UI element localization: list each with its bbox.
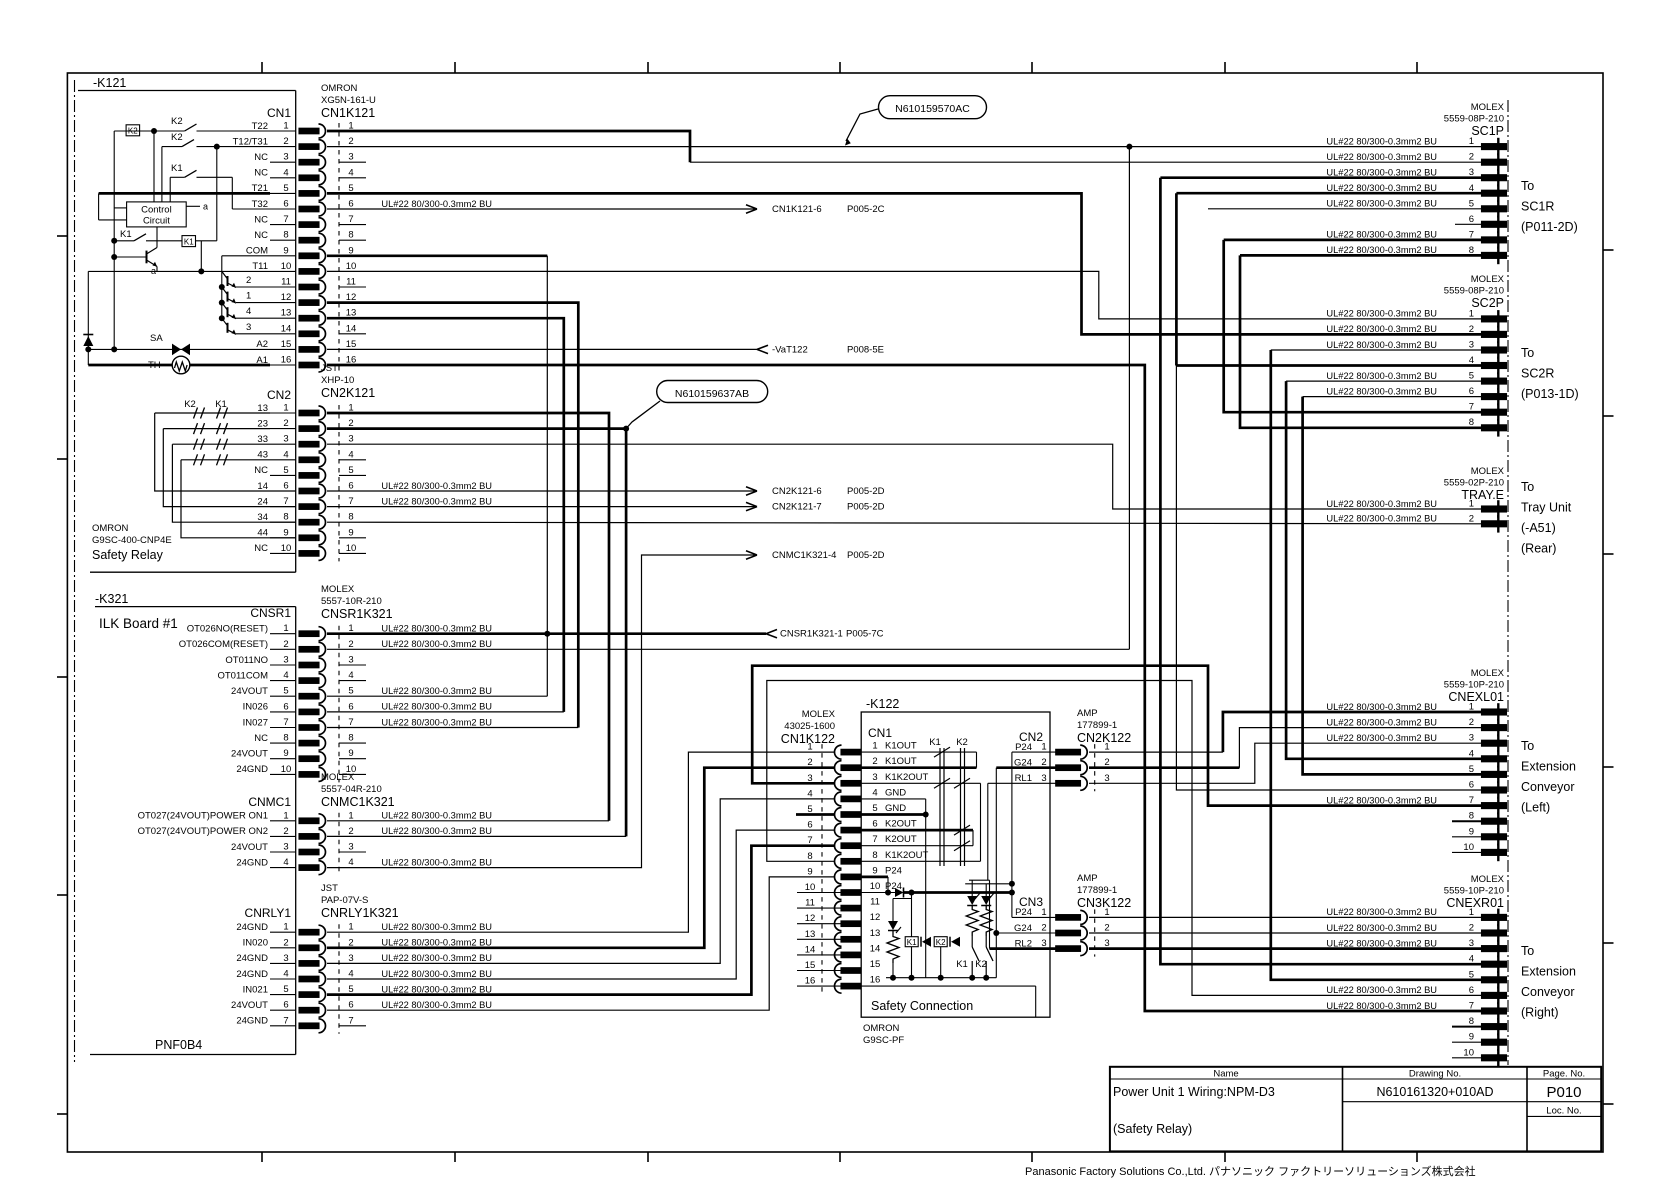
svg-text:9: 9 <box>1469 826 1474 837</box>
svg-text:2: 2 <box>283 639 288 650</box>
CN1K122 pin 10 contact <box>841 890 861 896</box>
svg-text:UL#22 80/300-0.3mm2 BU: UL#22 80/300-0.3mm2 BU <box>1326 183 1437 193</box>
svg-text:MOLEX: MOLEX <box>802 709 836 720</box>
svg-text:UL#22 80/300-0.3mm2 BU: UL#22 80/300-0.3mm2 BU <box>1326 733 1437 743</box>
relay contact bar row 3 <box>194 439 198 450</box>
CN1K121 pin 4 stub <box>270 177 296 179</box>
CNEXR01 pin 8 stub <box>1452 1026 1482 1028</box>
CNEXL01 pin 10 stub <box>1452 851 1482 853</box>
wire CN1K121-15 A2 from -VaT122 <box>327 348 757 350</box>
svg-text:7: 7 <box>283 1015 288 1026</box>
resistor R1 (K122) <box>966 906 978 937</box>
svg-text:K1: K1 <box>907 938 917 947</box>
node GND junction <box>923 812 929 818</box>
svg-text:13: 13 <box>257 403 268 414</box>
CN1K122 pin 4 contact <box>841 796 861 802</box>
CNSR1K321 pin 6 stub <box>270 711 296 713</box>
svg-text:2: 2 <box>1469 717 1474 728</box>
svg-text:NC: NC <box>254 543 268 554</box>
svg-text:7: 7 <box>283 717 288 728</box>
svg-text:K1: K1 <box>215 399 227 410</box>
svg-text:K1K2OUT: K1K2OUT <box>885 850 928 861</box>
svg-text:24VOUT: 24VOUT <box>231 686 268 697</box>
svg-text:UL#22 80/300-0.3mm2 BU: UL#22 80/300-0.3mm2 BU <box>1326 386 1437 396</box>
CN1K121 pin 9 contact <box>299 253 319 259</box>
svg-text:5: 5 <box>872 803 877 814</box>
relay contact bar row 2 <box>217 423 221 434</box>
svg-text:24VOUT: 24VOUT <box>231 749 268 760</box>
svg-text:OT011NO: OT011NO <box>225 655 268 666</box>
wire CN3K122 interior rows <box>1012 916 1056 918</box>
svg-text:UL#22 80/300-0.3mm2 BU: UL#22 80/300-0.3mm2 BU <box>1326 245 1437 255</box>
lower contact K1 row <box>111 238 117 244</box>
svg-text:To: To <box>1521 346 1534 360</box>
svg-text:UL#22 80/300-0.3mm2 BU: UL#22 80/300-0.3mm2 BU <box>381 1000 492 1010</box>
svg-text:13: 13 <box>870 928 881 939</box>
svg-text:UL#22 80/300-0.3mm2 BU: UL#22 80/300-0.3mm2 BU <box>1326 499 1437 509</box>
svg-text:8: 8 <box>1469 811 1474 822</box>
svg-text:Tray Unit: Tray Unit <box>1521 501 1572 515</box>
relay coil K2 (K122) <box>934 937 947 947</box>
svg-text:2: 2 <box>1469 923 1474 934</box>
svg-text:6: 6 <box>283 1000 288 1011</box>
svg-text:K2OUT: K2OUT <box>885 834 917 845</box>
svg-text:UL#22 80/300-0.3mm2 BU: UL#22 80/300-0.3mm2 BU <box>381 922 492 932</box>
contact K2 (bottom) <box>985 936 987 947</box>
CNSR1K321 pin 7 contact <box>299 725 319 731</box>
-K121 board outline <box>78 90 296 92</box>
CNSR1K321 pin 3 stub <box>270 664 296 666</box>
wire CN1K121-16 A1 to CNEXR01-7 <box>327 365 1482 1011</box>
SC2P pin 1 contact <box>1482 316 1507 322</box>
CN1K121 pin 13 contact <box>299 315 319 321</box>
svg-text:2: 2 <box>348 826 353 837</box>
CNSR1K321 pin 7 stub <box>270 727 296 729</box>
CN1K121 pin 12 stub <box>270 302 296 304</box>
svg-text:MOLEX: MOLEX <box>1471 102 1505 113</box>
wire COM interior <box>222 255 270 257</box>
svg-text:24VOUT: 24VOUT <box>231 842 268 853</box>
wire SC2P-3 row <box>1271 349 1482 351</box>
CN2K121 pin 3 stub <box>270 443 296 445</box>
wire resistor top rail <box>969 879 990 881</box>
CNMC1K321 pin 4 contact <box>299 865 319 871</box>
CNMC1K321 pin 1 stub <box>270 820 296 822</box>
svg-text:T12/T31: T12/T31 <box>233 136 268 147</box>
svg-text:Panasonic Factory Solutions Co: Panasonic Factory Solutions Co.,Ltd. パナソ… <box>1025 1164 1476 1178</box>
CN2K121 pin 6 stub <box>270 490 296 492</box>
-K122 box outline <box>861 712 1050 1017</box>
CN2K121 pin 2 stub <box>270 428 296 430</box>
CN3K122 pin 2 contact <box>1056 930 1081 936</box>
svg-text:CN1: CN1 <box>868 726 892 740</box>
CN1K122 pin 3 contact <box>841 781 861 787</box>
wire P24 vertical CN2-1 to CN3-1 <box>1011 752 1013 917</box>
svg-text:2: 2 <box>1104 923 1109 934</box>
wire horizontal into CC <box>114 207 126 209</box>
connector CN2K121 dashed body line <box>338 405 340 561</box>
diode D10 (P24) <box>895 888 904 897</box>
svg-text:UL#22 80/300-0.3mm2 BU: UL#22 80/300-0.3mm2 BU <box>1326 340 1437 350</box>
wire to T32 pin6 <box>232 208 270 210</box>
CNMC1K321 pin 1 contact <box>299 818 319 824</box>
frame tick marks top <box>261 62 263 73</box>
resistor R2 (K122) <box>980 906 992 937</box>
svg-text:10: 10 <box>281 764 292 775</box>
CNSR1K321 pin 8 stub <box>270 742 296 744</box>
svg-text:CN1K121: CN1K121 <box>321 106 375 120</box>
relay contact bar row 2 <box>194 423 198 434</box>
svg-text:14: 14 <box>281 323 292 334</box>
CNEXR01 pin 10 contact <box>1482 1055 1507 1061</box>
CN2K122 pin 3 contact <box>1056 781 1081 787</box>
svg-text:SC1P: SC1P <box>1471 124 1504 138</box>
svg-text:8: 8 <box>807 851 812 862</box>
CN1K122 pin 7 contact <box>841 843 861 849</box>
CN1K121 pin 15 stub <box>270 348 296 350</box>
svg-text:4: 4 <box>348 449 353 460</box>
svg-text:UL#22 80/300-0.3mm2 BU: UL#22 80/300-0.3mm2 BU <box>381 938 492 948</box>
contact K1 lower slash <box>134 234 146 241</box>
svg-text:10: 10 <box>346 261 357 272</box>
CN1K121 pin 11 stub <box>270 286 296 288</box>
wire CN2 row2 to row7 <box>163 429 295 507</box>
relay contact bar row 2 <box>224 423 228 434</box>
callout N610159637AB <box>657 381 768 403</box>
TRAY.E pin 1 contact <box>1482 506 1507 512</box>
external boundary dash-dot line right <box>1507 100 1509 1065</box>
svg-text:CNMC1: CNMC1 <box>248 795 291 809</box>
svg-text:10: 10 <box>1463 1047 1474 1058</box>
svg-text:UL#22 80/300-0.3mm2 BU: UL#22 80/300-0.3mm2 BU <box>1326 923 1437 933</box>
SC1P pin 2 contact <box>1482 159 1507 165</box>
svg-text:UL#22 80/300-0.3mm2 BU: UL#22 80/300-0.3mm2 BU <box>381 199 492 209</box>
svg-text:CNSR1K321-1: CNSR1K321-1 <box>780 629 843 640</box>
svg-text:NC: NC <box>254 733 268 744</box>
wire row2 interior <box>162 146 182 148</box>
svg-text:6: 6 <box>283 481 288 492</box>
CNSR1K321 pin 2 contact <box>299 647 319 653</box>
contact K1 upper <box>169 177 171 202</box>
svg-text:UL#22 80/300-0.3mm2 BU: UL#22 80/300-0.3mm2 BU <box>1326 324 1437 334</box>
SC1P pin 6 contact <box>1482 221 1507 227</box>
svg-text:K2: K2 <box>956 737 968 748</box>
node callout target CN2K121-2 <box>623 426 629 432</box>
CNRLY1K321 pin 5 contact <box>299 992 319 998</box>
svg-text:3: 3 <box>283 434 288 445</box>
svg-text:15: 15 <box>870 959 881 970</box>
svg-text:6: 6 <box>1469 386 1474 397</box>
CN1K122 pin 14 contact <box>841 952 861 958</box>
CNRLY1K321 pin 1 contact <box>299 929 319 935</box>
svg-text:COM: COM <box>246 246 268 257</box>
svg-text:24GND: 24GND <box>236 953 268 964</box>
svg-text:CNRLY1: CNRLY1 <box>245 906 292 920</box>
wire vertical to CNEXR01-5 <box>1271 350 1482 980</box>
svg-text:9: 9 <box>283 527 288 538</box>
CNEXR01 pin 7 contact <box>1482 1008 1507 1014</box>
svg-text:NC: NC <box>254 168 268 179</box>
CNSR1K321 pin 10 stub <box>270 773 296 775</box>
svg-text:23: 23 <box>257 418 268 429</box>
svg-text:CNRLY1K321: CNRLY1K321 <box>321 906 399 920</box>
svg-text:P005-2D: P005-2D <box>847 550 885 561</box>
node junction SC1P-1 branch <box>1126 144 1132 150</box>
wire CNRLY1-2 to CN1K122-2 <box>327 768 834 948</box>
svg-text:CN2K121: CN2K121 <box>321 386 375 400</box>
wire A2 row interior <box>88 348 270 350</box>
svg-text:(Right): (Right) <box>1521 1006 1559 1020</box>
wire A1 row interior <box>88 364 270 367</box>
svg-text:IN027: IN027 <box>243 717 268 728</box>
svg-text:T11: T11 <box>252 261 268 272</box>
svg-text:7: 7 <box>348 214 353 225</box>
svg-text:5: 5 <box>283 984 288 995</box>
svg-text:K2: K2 <box>171 132 183 143</box>
connector CNRLY1K321 dashed body line <box>338 924 340 1034</box>
svg-text:24GND: 24GND <box>236 922 268 933</box>
CN1K121 pin 5 stub <box>270 192 296 194</box>
svg-text:JST: JST <box>321 883 338 894</box>
CNEXR01 pin 2 contact <box>1482 930 1507 936</box>
CN1K121 pin 1 contact <box>299 128 319 134</box>
svg-text:3: 3 <box>348 655 353 666</box>
svg-text:10: 10 <box>870 881 881 892</box>
svg-text:1: 1 <box>283 922 288 933</box>
wire T21 interior <box>99 192 270 195</box>
svg-text:33: 33 <box>257 434 268 445</box>
node P24 branch <box>909 890 915 896</box>
svg-text:3: 3 <box>1469 733 1474 744</box>
CN2K121 pin 5 stub <box>270 474 296 476</box>
SC1P pin 8 contact <box>1482 252 1507 258</box>
CNRLY1K321 pin 5 stub <box>270 994 296 996</box>
connector CNSR1K321 dashed body line <box>338 626 340 783</box>
svg-text:4: 4 <box>283 969 288 980</box>
wire GND rows4-5 <box>861 798 926 800</box>
svg-text:5559-08P-210: 5559-08P-210 <box>1444 286 1504 297</box>
svg-text:K2OUT: K2OUT <box>885 819 917 830</box>
svg-text:7: 7 <box>283 496 288 507</box>
CNRLY1K321 pin 6 stub <box>270 1009 296 1011</box>
title divider 1 <box>1342 1067 1344 1152</box>
opto transistor output 2 (pin 11) <box>222 271 228 279</box>
svg-text:14: 14 <box>805 944 816 955</box>
relay contact bar row 2 <box>201 423 205 434</box>
svg-text:UL#22 80/300-0.3mm2 BU: UL#22 80/300-0.3mm2 BU <box>1326 1001 1437 1011</box>
svg-text:9: 9 <box>283 748 288 759</box>
svg-text:CN2: CN2 <box>267 388 291 402</box>
CNSR1K321 pin 8 contact <box>299 740 319 746</box>
svg-text:4: 4 <box>283 167 288 178</box>
CNEXL01 pin 2 contact <box>1482 725 1507 731</box>
CN2K121 pin 7 stub <box>270 506 296 508</box>
svg-text:1: 1 <box>348 922 353 933</box>
connector CNMC1K321 dashed body line <box>338 813 340 876</box>
SC2P pin 6 contact <box>1482 394 1507 400</box>
svg-text:24GND: 24GND <box>236 1016 268 1027</box>
wire CNSR1-5 <box>327 695 547 697</box>
svg-text:K1: K1 <box>184 237 194 246</box>
svg-text:-K121: -K121 <box>93 76 126 90</box>
svg-text:Conveyor: Conveyor <box>1521 985 1575 999</box>
CN1K121 pin 14 stub <box>270 333 296 335</box>
SC2P pin 3 contact <box>1482 347 1507 353</box>
node P24 junction <box>885 890 891 896</box>
svg-text:6: 6 <box>283 199 288 210</box>
wire CN3K122-2 to CNEXR01-2 <box>1089 932 1482 934</box>
svg-text:10: 10 <box>1463 842 1474 853</box>
relay contact bar row 3 <box>201 439 205 450</box>
CNSR1K321 pin 3 contact <box>299 662 319 668</box>
wire CNRLY1-1 to CN1K122-1 <box>327 752 834 932</box>
wire CN1K121-1 T22 step <box>327 131 690 162</box>
svg-text:AMP: AMP <box>1077 708 1098 719</box>
svg-text:2: 2 <box>246 275 251 286</box>
wire CN2K122-2 to CNEXL01-2 <box>1239 728 1481 768</box>
wire CN1K121-2 T12/T31 to SC1P-1 <box>327 146 1482 148</box>
svg-text:IN020: IN020 <box>243 938 268 949</box>
CN1K121 pin 1 stub <box>270 130 296 132</box>
svg-text:MOLEX: MOLEX <box>321 584 355 595</box>
svg-text:10: 10 <box>805 882 816 893</box>
svg-text:16: 16 <box>870 975 881 986</box>
wire CN2 row4 to row9 <box>181 460 295 538</box>
contact K2 on row1 <box>185 124 197 131</box>
CNSR1K321 pin 2 stub <box>270 648 296 650</box>
svg-text:10: 10 <box>281 261 292 272</box>
svg-text:(Safety Relay): (Safety Relay) <box>1113 1122 1192 1136</box>
wire row1 interior <box>114 130 184 132</box>
svg-text:6: 6 <box>348 701 353 712</box>
relay contact bar row 1 <box>217 408 221 419</box>
SC2P pin 4 contact <box>1482 363 1507 369</box>
svg-text:UL#22 80/300-0.3mm2 BU: UL#22 80/300-0.3mm2 BU <box>1326 985 1437 995</box>
svg-text:3: 3 <box>283 655 288 666</box>
svg-text:K2: K2 <box>171 116 183 127</box>
CN1K122 pin16 inner wire <box>861 985 1036 987</box>
svg-text:13: 13 <box>805 929 816 940</box>
CN2K121 pin 10 contact <box>299 551 319 557</box>
svg-text:3: 3 <box>348 152 353 163</box>
svg-text:Circuit: Circuit <box>143 216 170 227</box>
CNSR1K321 pin 1 stub <box>270 633 296 635</box>
svg-text:5: 5 <box>1469 198 1474 209</box>
svg-text:8: 8 <box>1469 1016 1474 1027</box>
CN1K121 pin 16 stub <box>270 364 296 366</box>
wire diode drop 1 <box>971 880 973 896</box>
wire RL2 vertical <box>989 880 991 948</box>
svg-text:4: 4 <box>872 787 877 798</box>
svg-text:OT026NO(RESET): OT026NO(RESET) <box>187 624 268 635</box>
svg-text:10: 10 <box>281 543 292 554</box>
svg-text:24: 24 <box>257 496 268 507</box>
svg-text:MOLEX: MOLEX <box>1471 466 1505 477</box>
svg-text:Extension: Extension <box>1521 760 1576 774</box>
node P24 vertical junction <box>1009 890 1015 896</box>
svg-text:SC2P: SC2P <box>1471 296 1504 310</box>
wire CN1K122-8 to CNEXR01-6 <box>767 681 1482 996</box>
svg-text:1: 1 <box>348 810 353 821</box>
svg-text:UL#22 80/300-0.3mm2 BU: UL#22 80/300-0.3mm2 BU <box>381 953 492 963</box>
svg-text:UL#22 80/300-0.3mm2 BU: UL#22 80/300-0.3mm2 BU <box>381 984 492 994</box>
CNSR1K321 pin 5 stub <box>270 695 296 697</box>
svg-text:SA: SA <box>150 333 163 344</box>
K122 bottom rail <box>886 977 996 979</box>
svg-text:4: 4 <box>348 969 353 980</box>
CNRLY1K321 pin 7 stub <box>270 1025 296 1027</box>
wire CN1K121-5 T21 to SC2P-2 <box>327 193 1482 334</box>
wire CN2K121-6 off-page <box>327 490 755 492</box>
SC1P pin 6 stub <box>1455 223 1482 225</box>
svg-text:9: 9 <box>807 866 812 877</box>
svg-text:1: 1 <box>1469 308 1474 319</box>
svg-text:43: 43 <box>257 450 268 461</box>
wire CN2K121-8 to TRAY.E-2 <box>327 522 1482 524</box>
CN2K121 pin 4 stub <box>270 459 296 461</box>
svg-text:(P011-2D): (P011-2D) <box>1521 220 1578 234</box>
svg-text:CNMC1K321: CNMC1K321 <box>321 795 395 809</box>
svg-text:2: 2 <box>283 937 288 948</box>
svg-text:UL#22 80/300-0.3mm2 BU: UL#22 80/300-0.3mm2 BU <box>1326 907 1437 917</box>
Control Circuit box <box>127 202 187 227</box>
svg-text:PAP-07V-S: PAP-07V-S <box>321 895 368 906</box>
CNEXR01 pin 10 stub <box>1452 1057 1482 1059</box>
svg-text:3: 3 <box>1104 773 1109 784</box>
relay contact bar row 1 <box>194 408 198 419</box>
CN1K121 pin 10 stub <box>270 270 296 272</box>
CN1K121 pin 9 stub <box>270 255 296 257</box>
svg-text:CN1: CN1 <box>267 106 291 120</box>
svg-text:UL#22 80/300-0.3mm2 BU: UL#22 80/300-0.3mm2 BU <box>381 811 492 821</box>
svg-text:K2: K2 <box>936 938 946 947</box>
svg-text:RL1: RL1 <box>1015 773 1032 784</box>
svg-text:Safety Relay: Safety Relay <box>92 548 164 562</box>
CNMC1K321 pin 3 contact <box>299 849 319 855</box>
wire vertical to CNEXR01-4 <box>1160 178 1481 965</box>
svg-text:177899-1: 177899-1 <box>1077 885 1117 896</box>
CN1K121 pin 5 contact <box>299 191 319 197</box>
CNEXL01 pin 9 contact <box>1482 834 1507 840</box>
svg-text:3: 3 <box>246 322 251 333</box>
wire RL1 vertical <box>987 783 989 880</box>
CN2K121 pin 9 stub <box>270 537 296 539</box>
svg-text:6: 6 <box>807 820 812 831</box>
svg-text:11: 11 <box>870 897 880 908</box>
CNEXL01 pin 3 contact <box>1482 740 1507 746</box>
wire CN2K122-1 to CNEXL01-1 <box>1223 712 1482 752</box>
svg-text:1: 1 <box>283 810 288 821</box>
arrow from CNSR1K321-1 <box>766 630 777 638</box>
CNSR1K321 pin 4 stub <box>270 680 296 682</box>
relay contact bar row 3 <box>224 439 228 450</box>
CNEXL01 pin 6 contact <box>1482 787 1507 793</box>
CNEXR01 pin 3 contact <box>1482 946 1507 952</box>
CN1K121 pin 4 contact <box>299 175 319 181</box>
CN1K121 pin 8 contact <box>299 237 319 243</box>
CN2K121 pin 4 contact <box>299 457 319 463</box>
svg-text:IN021: IN021 <box>243 984 268 995</box>
svg-text:3: 3 <box>283 953 288 964</box>
CN1K122 pin 13 stub <box>797 938 841 940</box>
CNRLY1K321 pin 2 stub <box>270 947 296 949</box>
svg-text:MOLEX: MOLEX <box>321 772 355 783</box>
wire CNSR1-6 <box>327 711 564 713</box>
svg-text:P005-7C: P005-7C <box>846 629 884 640</box>
svg-text:3: 3 <box>348 434 353 445</box>
CN1K121 pin 6 stub <box>270 208 296 210</box>
node rail junction <box>969 975 975 981</box>
